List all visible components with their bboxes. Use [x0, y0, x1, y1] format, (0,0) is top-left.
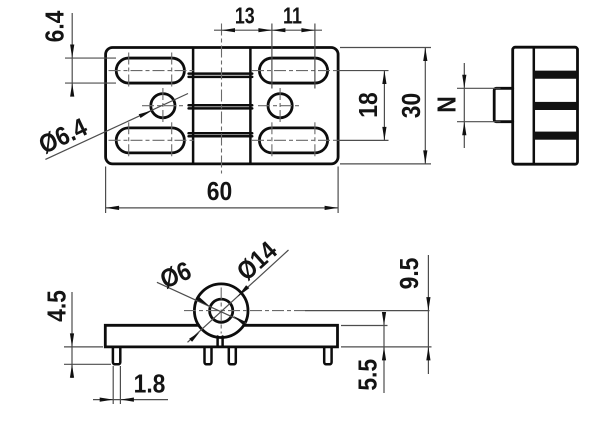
- arrow 60 left: [106, 206, 120, 210]
- dim 9.5 extension bottom: [341, 346, 432, 348]
- centerline mid row right: [258, 105, 302, 107]
- dim N extension bottom: [457, 121, 501, 123]
- bottom view plate: [105, 325, 337, 347]
- bore circle: [210, 299, 233, 322]
- dim 6.4 extension top: [65, 57, 116, 59]
- centerline top row left: [109, 70, 195, 72]
- pin 4: [324, 347, 331, 364]
- arrow 6.4 bottom: [70, 83, 74, 97]
- centerline bottom row right: [252, 139, 337, 141]
- centerline slot cap BR-b: [314, 122, 316, 158]
- hole right: [268, 94, 292, 118]
- dim 4.5 extension bottom: [64, 363, 111, 365]
- arrow dia14: [237, 285, 249, 297]
- dim 18 extension bottom: [337, 139, 389, 141]
- svg-text:60: 60: [207, 178, 232, 207]
- arrow 5.5 top: [382, 312, 386, 326]
- boss centerline horizontal: [184, 310, 305, 312]
- side view web line: [533, 48, 536, 163]
- rib 3: [189, 132, 253, 135]
- top view plate outline: [106, 48, 339, 164]
- channel left edge: [192, 49, 195, 163]
- channel center line: [221, 24, 223, 174]
- dim 9.5 line: [427, 255, 429, 374]
- arrow dia14 lower: [189, 332, 199, 342]
- dim 5.5 line: [383, 313, 385, 393]
- boss centerline vertical: [220, 288, 222, 334]
- pin 1: [113, 347, 120, 364]
- rib 1: [189, 72, 253, 75]
- dim 6.4 extension bottom: [65, 82, 116, 84]
- slit below boss: [216, 337, 219, 346]
- side tab: [494, 88, 513, 121]
- dim 6.4 line: [71, 13, 73, 96]
- arrow 1.8 right: [120, 398, 133, 402]
- arrow 11 right: [301, 28, 315, 32]
- centerline bottom row left: [109, 139, 195, 141]
- pin 2: [205, 347, 212, 364]
- svg-text:13: 13: [235, 3, 255, 29]
- dim 4.5 line: [71, 292, 73, 378]
- centerline slot cap BR-a: [271, 122, 273, 158]
- channel right edge: [249, 49, 252, 163]
- slot bottom-left: [116, 128, 184, 153]
- centerline slot cap BL-b: [171, 122, 173, 158]
- dim 1.8 line: [93, 399, 168, 401]
- arrow 4.5 bottom: [70, 364, 74, 378]
- boss outer circle: [194, 284, 248, 338]
- arrow 9.5 bottom: [426, 347, 430, 361]
- arrow 18 top: [382, 71, 386, 85]
- arrow 30 top: [423, 48, 427, 62]
- side slot bar 2: [534, 102, 577, 110]
- svg-text:Ø14: Ø14: [232, 236, 284, 286]
- centerline slot cap TL-a: [128, 53, 130, 89]
- dim 5.5 extension top: [341, 325, 388, 327]
- svg-text:4.5: 4.5: [43, 290, 72, 322]
- arrow N bottom: [462, 122, 466, 136]
- centerline hole right vertical: [279, 88, 281, 124]
- arrow 4.5 top: [70, 333, 74, 347]
- arrow 30 bottom: [423, 150, 427, 164]
- dim 1.8 extension right: [119, 366, 121, 404]
- arrow dia6 upper: [197, 297, 209, 307]
- svg-text:Ø6: Ø6: [156, 257, 195, 295]
- dim 4.5 extension top: [64, 346, 103, 348]
- dim 13/11 extension line right: [314, 24, 316, 89]
- dim N line: [463, 63, 465, 148]
- arrow N top: [462, 75, 466, 89]
- svg-text:30: 30: [398, 93, 427, 118]
- svg-text:6.4: 6.4: [41, 10, 70, 42]
- side view body: [513, 47, 578, 164]
- dia 6 dim line: [157, 282, 246, 323]
- arrow 13 left: [222, 28, 236, 32]
- slot bottom-right: [259, 128, 327, 153]
- dim 30 extension bottom: [340, 163, 431, 165]
- svg-text:Ø6.4: Ø6.4: [35, 113, 92, 160]
- dim 60 extension right: [337, 167, 339, 214]
- rib 2: [189, 104, 253, 107]
- leader dia 6.4: [45, 94, 188, 160]
- svg-text:9.5: 9.5: [396, 258, 425, 290]
- side slot bar 3: [534, 132, 577, 140]
- pin 3: [229, 347, 236, 364]
- dim N extension top: [457, 87, 501, 89]
- dim 30 extension top: [340, 47, 431, 49]
- dim 13/11 line: [214, 29, 322, 31]
- centerline slot cap TL-b: [171, 53, 173, 89]
- arrow 18 bottom: [382, 127, 386, 141]
- arrow 13 right: [258, 28, 272, 32]
- hole left: [151, 94, 175, 118]
- slot top-right: [259, 58, 327, 83]
- centerline hole left vertical: [162, 88, 164, 124]
- arrow 11 left: [272, 28, 286, 32]
- dia 14 leader: [188, 250, 289, 342]
- dim 60 line: [106, 207, 339, 209]
- dim 60 extension left: [105, 167, 107, 214]
- svg-text:11: 11: [283, 3, 302, 29]
- dim 18 line: [383, 71, 385, 141]
- dim 18 extension top: [337, 70, 389, 72]
- side slot bar 1: [534, 71, 577, 79]
- arrow 60 right: [325, 206, 339, 210]
- arrow dia6 lower: [233, 316, 245, 326]
- arrow 5.5 bottom: [382, 347, 386, 361]
- svg-text:N: N: [433, 96, 462, 113]
- arrow 1.8 left: [100, 398, 114, 402]
- dim 13/11 extension line mid: [271, 24, 273, 89]
- centerline slot cap BL-a: [128, 122, 130, 158]
- svg-text:18: 18: [355, 92, 384, 117]
- arrow 6.4 top: [70, 45, 74, 59]
- slot top-left: [116, 58, 184, 83]
- svg-text:1.8: 1.8: [134, 370, 166, 399]
- dim 30 line: [424, 48, 426, 164]
- arrow dia 6.4: [139, 111, 152, 119]
- centerline mid row left: [142, 105, 184, 107]
- centerline top row right: [252, 70, 337, 72]
- svg-text:5.5: 5.5: [354, 359, 383, 391]
- dim 1.8 extension left: [112, 366, 114, 404]
- arrow 9.5 top: [426, 297, 430, 311]
